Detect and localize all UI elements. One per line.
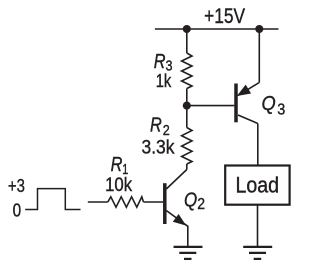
svg-text:Q: Q [262, 93, 276, 115]
resistor R2 [182, 128, 192, 165]
transistor Q3 emitter arrow (PNP, pointing to bar) [237, 85, 251, 96]
svg-text:Q: Q [184, 189, 197, 211]
label Q3 [262, 93, 286, 119]
node: junction dot left (rail / R3) [183, 25, 191, 33]
node: junction dot right (rail / Q3 emitter) [255, 25, 263, 33]
label 3.3k (R2 value) [142, 136, 175, 158]
svg-text:R: R [150, 115, 162, 137]
label R3 [154, 51, 173, 75]
transistor Q2 bar [163, 183, 167, 224]
power rail +15V [155, 28, 279, 30]
label 10k (R1 value) [105, 174, 132, 196]
wire: R2 bottom to Q2 collector [186, 164, 188, 170]
label +3 (input high level) [8, 175, 25, 196]
transistor Q3 collector diagonal [238, 115, 258, 124]
wire: Q2 emitter to ground [187, 226, 189, 247]
resistor R3 [182, 53, 192, 89]
label R1 [111, 154, 129, 178]
wire: Q3 collector to Load [257, 124, 259, 166]
wire: node A to R2 top [186, 106, 188, 128]
resistor R1 [108, 197, 144, 207]
label Load [236, 172, 280, 197]
svg-text:10k: 10k [105, 174, 132, 196]
label 1k (R3 value) [156, 71, 172, 91]
svg-text:+3: +3 [8, 175, 25, 196]
label +15V [204, 5, 245, 28]
wire: node A to Q3 base [187, 105, 235, 107]
transistor Q2 collector diagonal [166, 170, 187, 190]
transistor Q3 emitter diagonal [238, 83, 259, 96]
transistor Q3 bar [234, 84, 238, 123]
wire: input to R1 [88, 201, 108, 203]
svg-text:R: R [111, 154, 123, 176]
svg-text:Load: Load [236, 172, 280, 197]
wire: R3 bottom to node A [186, 89, 188, 106]
svg-text:2: 2 [197, 196, 205, 213]
label 0 (input low level) [13, 199, 22, 220]
transistor Q2 emitter diagonal [166, 211, 188, 227]
wire: Load bottom to ground [257, 205, 259, 246]
svg-text:+15V: +15V [204, 5, 245, 28]
svg-text:3: 3 [277, 102, 285, 119]
wire: R1 to Q2 base [144, 201, 164, 203]
transistor Q2 emitter arrow (NPN, pointing out) [173, 214, 186, 226]
label R2 [150, 115, 170, 139]
svg-text:3.3k: 3.3k [142, 136, 175, 158]
wire: rail to R3 top [186, 29, 188, 53]
svg-text:1k: 1k [156, 71, 172, 91]
node A: junction dot (R3 / R2 / Q3 base) [183, 102, 191, 110]
wire: Q3 emitter vertical from rail dot [258, 29, 260, 83]
load box [225, 166, 289, 205]
ground (Q2 emitter) [174, 247, 203, 259]
svg-text:0: 0 [13, 199, 22, 220]
label Q2 [184, 189, 205, 213]
input pulse waveform [25, 189, 80, 210]
svg-text:R: R [154, 51, 166, 73]
ground (load) [243, 247, 272, 259]
